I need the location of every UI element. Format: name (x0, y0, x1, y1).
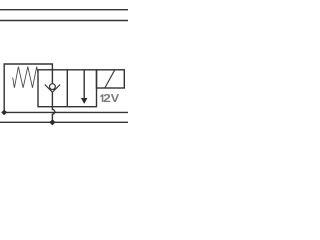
spring return (13, 67, 38, 88)
check valve ball (50, 84, 56, 90)
label 12V (100, 94, 119, 102)
check valve stem upper (51, 70, 53, 84)
wire W1 horizontal (4, 111, 128, 113)
valve position divider (66, 70, 68, 107)
solenoid coil Y1 box (97, 70, 125, 88)
solenoid diagonal (105, 70, 115, 88)
valve body V1 (38, 70, 97, 107)
wire W2 horizontal bottom (0, 121, 128, 123)
flow arrow line right position (83, 70, 85, 98)
wire rail top 2 (0, 20, 128, 22)
check valve stem lower (51, 92, 53, 107)
junction node on W2 (49, 119, 55, 125)
wire port 1 down with hop over W1 (52, 107, 54, 123)
junction node on W1 (1, 110, 7, 116)
wire rail top 1 (0, 9, 128, 11)
check valve seat (45, 85, 60, 93)
pilot line top (4, 64, 52, 112)
flow arrow head (81, 98, 88, 104)
